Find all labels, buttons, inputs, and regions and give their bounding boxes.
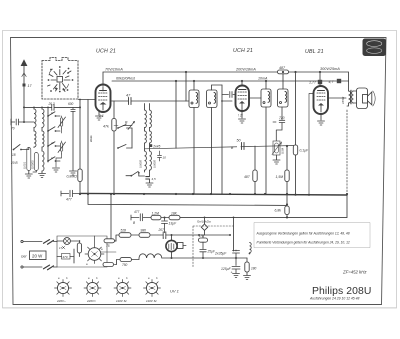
svg-text:75: 75: [106, 244, 110, 248]
socket diagram V3: [114, 280, 131, 297]
grid return UBL: [309, 94, 314, 195]
svg-text:165Ω: 165Ω: [341, 96, 345, 104]
contact a1: [48, 112, 60, 116]
resistor box 470: [62, 254, 71, 260]
svg-text:980: 980: [141, 229, 147, 233]
svg-text:17: 17: [59, 246, 63, 250]
B1/B2 wires: [194, 81, 222, 194]
svg-text:4,5: 4,5: [152, 177, 157, 181]
svg-text:1,2M: 1,2M: [152, 211, 160, 215]
ground cap600: [70, 171, 77, 175]
ground mid column: [53, 168, 60, 172]
svg-text:477: 477: [134, 210, 140, 214]
top tuning wire: [24, 106, 80, 108]
anode line with cap 47: [111, 100, 129, 102]
line from rail to IF: [185, 72, 187, 101]
svg-text:175: 175: [199, 234, 205, 238]
svg-text:UBL 21: UBL 21: [305, 49, 324, 55]
IF transformer box B2: [207, 90, 218, 108]
resistor 0.8M: [78, 169, 82, 182]
wave switch column: [47, 107, 49, 162]
grid wire tube1 to switch box: [79, 99, 96, 101]
svg-text:600: 600: [68, 102, 74, 106]
resistor 528: [119, 233, 131, 238]
coil L2 (aerial sec): [42, 109, 44, 127]
svg-text:0,0005: 0,0005: [139, 160, 143, 168]
osc coil stubs: [144, 104, 146, 173]
svg-text:200V/18mA: 200V/18mA: [235, 68, 256, 72]
power supply block: [57, 236, 107, 267]
svg-text:207: 207: [158, 228, 165, 232]
svg-text:6,8k: 6,8k: [275, 209, 282, 213]
ground bus 1: [80, 193, 347, 195]
long drop from speaker field coil: [346, 110, 348, 195]
svg-text:watt: watt: [368, 49, 374, 53]
cap 25uF: [200, 242, 206, 258]
series cap 4,5: [146, 177, 150, 179]
trimmer cap t2: [58, 141, 66, 154]
joining stubs: [56, 129, 62, 167]
tube2 down to AF line: [222, 85, 232, 194]
cap 477 to bus: [61, 190, 80, 196]
svg-text:20 B: 20 B: [10, 161, 18, 165]
svg-text:Punktierte Verbindungen gelten: Punktierte Verbindungen gelten für Ausfü…: [257, 241, 350, 245]
hum coil: [250, 243, 252, 253]
tube2 cathode ground: [239, 111, 246, 124]
pot arrow B: [123, 122, 135, 130]
svg-text:220V~: 220V~: [56, 299, 66, 303]
resistor 6,8k: [285, 206, 289, 215]
pickup diamond Gn: [201, 224, 207, 230]
svg-text:18K: 18K: [171, 211, 178, 215]
svg-text:Al: Al: [50, 141, 54, 145]
B3/B4 wires: [249, 74, 283, 194]
svg-text:2x35µF: 2x35µF: [214, 252, 227, 256]
svg-text:Ausgezogene Verbindungen gelte: Ausgezogene Verbindungen gelten für Ausf…: [256, 232, 350, 236]
socket pin letters: [58, 276, 158, 280]
output transformer T2: [347, 90, 354, 106]
tube U3 UBL21: [314, 86, 329, 114]
svg-text:220V=: 220V=: [86, 299, 96, 303]
oscillator coil L4: [150, 110, 152, 128]
band switch contact 18: [14, 145, 29, 150]
svg-text:Ausführungen 24 29 10 12 45 48: Ausführungen 24 29 10 12 45 48: [309, 296, 360, 300]
rotary switch S1 internals: [48, 69, 72, 92]
coil stubs: [33, 107, 35, 147]
svg-text:47k: 47k: [103, 125, 109, 129]
cap 10: [158, 151, 162, 161]
ground osc: [146, 179, 153, 187]
svg-text:0,0005: 0,0005: [31, 160, 35, 169]
svg-text:+: +: [231, 271, 233, 275]
svg-text:0,001: 0,001: [23, 162, 27, 169]
svg-text:487: 487: [244, 175, 250, 179]
antenna coupling cap 70: [11, 119, 34, 125]
fuse resistor bottom: [103, 263, 114, 267]
contact a4: [48, 157, 60, 161]
IF transformer box B3: [261, 89, 271, 107]
screen resistor 1,77: [319, 72, 321, 86]
miniwatt logo stamp: [363, 39, 387, 57]
svg-text:10mA: 10mA: [258, 77, 268, 81]
svg-text:18: 18: [12, 153, 16, 157]
svg-text:60kΩ/0Rest: 60kΩ/0Rest: [116, 77, 136, 81]
svg-text:300V/25mA: 300V/25mA: [320, 67, 340, 71]
band switch S1 dashed box: [42, 58, 78, 100]
series cap 207: [163, 232, 166, 239]
grid return line: [87, 100, 89, 195]
svg-text:528: 528: [121, 229, 127, 233]
note box: [254, 223, 370, 248]
speaker LS: [357, 88, 376, 109]
svg-text:70: 70: [11, 127, 15, 131]
svg-text:180: 180: [251, 267, 257, 271]
cap 600: [71, 107, 75, 170]
svg-text:720: 720: [279, 116, 285, 120]
AF line: [145, 146, 296, 149]
rail 200V top: [103, 72, 349, 91]
svg-text:110V St: 110V St: [146, 299, 157, 303]
coupling cap 50: [242, 143, 245, 150]
tube U2 UCH21: [236, 81, 250, 111]
contact a3: [48, 142, 60, 146]
svg-text:50: 50: [237, 139, 241, 143]
svg-text:0,1µF: 0,1µF: [300, 149, 309, 153]
bus junction dots: [79, 193, 310, 196]
resistor 487 on rail: [278, 70, 289, 74]
fuse resistor top: [104, 239, 115, 243]
cap 13uF: [162, 218, 168, 236]
dashed alternate wiring: [193, 226, 234, 267]
svg-text:Philips 208U: Philips 208U: [312, 286, 372, 297]
resistor 1,2M: [151, 215, 161, 220]
svg-text:13µF: 13µF: [169, 222, 178, 226]
rectifier tube UY1: [166, 235, 186, 258]
resistor 47k below tube1: [113, 101, 115, 119]
contact a2: [48, 127, 60, 131]
dropper resistor: [77, 243, 81, 253]
oscillator coil L3: [145, 110, 147, 128]
svg-text:110V St: 110V St: [116, 299, 127, 303]
resistor 180: [246, 258, 248, 262]
svg-text:Gn/10kΩa: Gn/10kΩa: [197, 220, 211, 224]
osc switch contacts: [118, 125, 132, 129]
svg-text:0,0005: 0,0005: [153, 160, 157, 168]
heater bottom wire: [162, 257, 247, 259]
svg-text:70V/10mA: 70V/10mA: [105, 68, 123, 72]
svg-text:487: 487: [279, 66, 286, 70]
tube2 input cap: [222, 92, 236, 98]
resistor 175: [202, 235, 204, 238]
pilot lamp: [64, 238, 71, 245]
socket diagram V2: [84, 280, 101, 297]
svg-text:470: 470: [63, 255, 68, 259]
resistor 487 (AF): [254, 146, 256, 170]
svg-text:UV 1: UV 1: [170, 289, 179, 294]
svg-text:2x45: 2x45: [152, 145, 160, 149]
anode resistor 4,7: [337, 79, 341, 83]
trimmer cap t1: [58, 116, 66, 129]
svg-text:750: 750: [122, 263, 128, 267]
mains wire bottom: [21, 266, 23, 268]
mains wire top: [21, 240, 23, 242]
svg-text:477: 477: [66, 198, 72, 202]
tube U1 UCH21: [96, 85, 111, 113]
cap 720: [273, 107, 285, 141]
drawing frame: [11, 38, 387, 305]
svg-text:20 3: 20 3: [48, 102, 55, 106]
electrolytic 2x35uF: [233, 250, 240, 258]
resistor 1,5M: [286, 146, 288, 170]
svg-text:UCH 21: UCH 21: [233, 48, 253, 54]
heater choke: [139, 254, 162, 258]
svg-text:10: 10: [163, 156, 167, 160]
svg-text:1,5M: 1,5M: [276, 175, 284, 179]
padding cap 0,0005: [34, 153, 38, 171]
svg-text:UCH 21: UCH 21: [96, 49, 116, 55]
svg-text:Welle: Welle: [89, 135, 93, 142]
svg-text:1,77: 1,77: [309, 81, 317, 85]
rail 2 (screen): [112, 80, 349, 82]
padder 2x45: [150, 144, 153, 147]
coil L1 (aerial): [34, 109, 36, 127]
series cap 20 3: [52, 105, 54, 111]
volume pot 0,5M: [273, 141, 280, 155]
osc feedback contact: [126, 171, 145, 176]
electrolytic 125uF: [232, 258, 240, 278]
IF transformer box B1: [189, 90, 199, 108]
resistor 980: [139, 233, 150, 238]
svg-text:Gel: Gel: [21, 255, 27, 259]
tube3 cathode ground: [318, 114, 325, 125]
svg-text:mini: mini: [369, 42, 375, 46]
socket diagram V4: [144, 280, 161, 297]
svg-text:ZF=452 kHz: ZF=452 kHz: [342, 270, 367, 275]
antenna A1: [21, 59, 28, 122]
padding cap 0,001: [27, 148, 31, 171]
svg-text:20 W: 20 W: [32, 254, 43, 259]
rectifier socket: [88, 248, 101, 261]
cap 0,1uF: [295, 72, 297, 145]
socket diagram V1: [55, 280, 72, 297]
bus 2: [88, 194, 287, 206]
svg-text:0,5M: 0,5M: [281, 147, 285, 154]
AVC cap 477: [131, 214, 151, 221]
IF transformer box B4: [278, 89, 289, 107]
heater feed wire: [111, 194, 230, 241]
resistor 18K: [169, 215, 180, 220]
tube1 cathode ground: [96, 110, 103, 120]
ground pads: [25, 174, 32, 178]
